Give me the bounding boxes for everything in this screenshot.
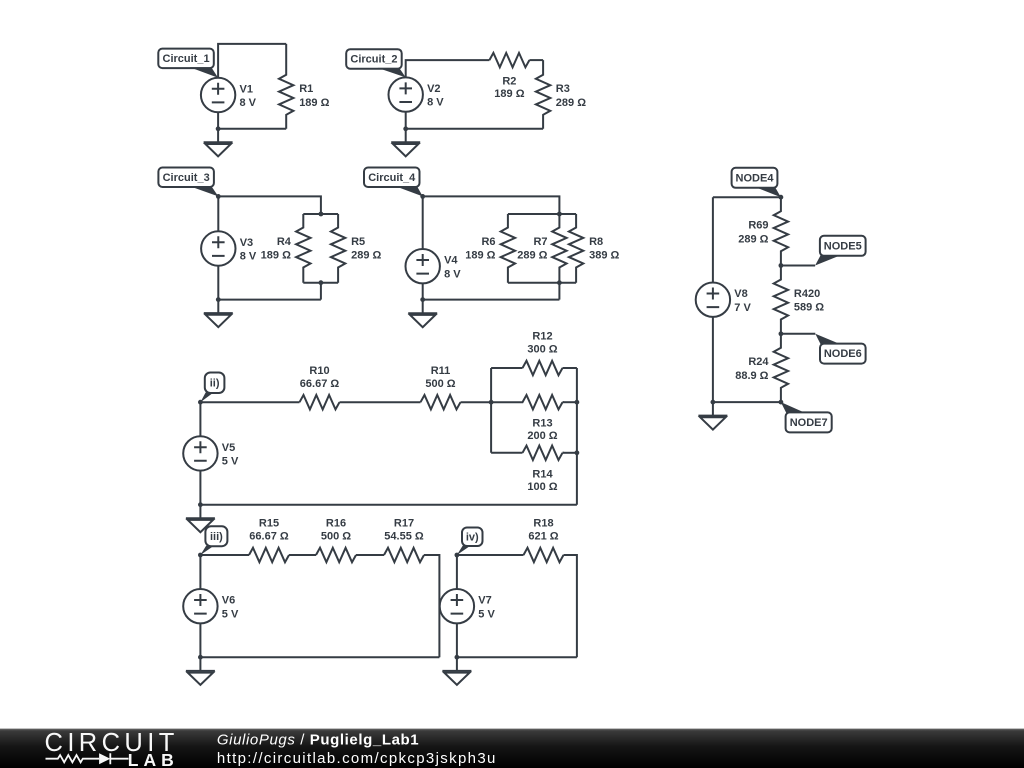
junction dot block right bottom xyxy=(575,450,580,455)
svg-text:88.9 Ω: 88.9 Ω xyxy=(735,370,768,382)
wire split top circuit 3 xyxy=(303,213,338,215)
svg-text:289 Ω: 289 Ω xyxy=(556,97,586,109)
resistor R15 xyxy=(249,518,289,563)
wire V2 to ground xyxy=(405,112,407,143)
wire V4 to ground xyxy=(422,283,424,313)
wire V6 to ground xyxy=(199,623,201,671)
svg-text:V3: V3 xyxy=(240,237,253,249)
wire V7 to ground xyxy=(456,623,458,671)
svg-text:300 Ω: 300 Ω xyxy=(527,344,557,356)
svg-text:R24: R24 xyxy=(748,356,769,368)
svg-text:V6: V6 xyxy=(222,595,235,607)
resistor R16 xyxy=(316,518,356,563)
label flag ii) xyxy=(200,373,224,403)
CircuitLab logo glyph resistor-diode xyxy=(46,753,129,764)
junction dot circuit 3 bottom xyxy=(216,297,221,302)
svg-text:R6: R6 xyxy=(481,236,495,248)
wire top-left circuit 2 xyxy=(406,60,490,77)
ground circuit 1 xyxy=(204,142,233,156)
junction dot circuit 2 xyxy=(403,126,408,131)
svg-text:R13: R13 xyxy=(532,418,552,430)
svg-text:66.67 Ω: 66.67 Ω xyxy=(300,378,340,390)
svg-text:R7: R7 xyxy=(533,236,547,248)
ground circuit 2 xyxy=(391,142,420,156)
svg-text:5 V: 5 V xyxy=(222,608,239,620)
wire V5 to ground xyxy=(199,471,201,519)
wire top rail node ladder xyxy=(713,196,781,198)
svg-text:189 Ω: 189 Ω xyxy=(465,250,495,262)
wire bottom rail ii xyxy=(200,504,577,506)
junction dot iv bottom xyxy=(455,655,460,660)
svg-text:R16: R16 xyxy=(326,518,346,530)
svg-text:NODE7: NODE7 xyxy=(790,417,828,429)
wire split bottom circuit 3 xyxy=(303,282,338,284)
svg-text:ii): ii) xyxy=(210,377,220,389)
wire split bottom circuit 4 xyxy=(508,282,576,284)
voltage source V7 xyxy=(440,589,496,623)
footer url xyxy=(217,750,497,767)
label flag NODE7 xyxy=(781,402,832,432)
svg-text:R4: R4 xyxy=(277,236,292,248)
svg-text:R11: R11 xyxy=(431,365,451,377)
svg-text:R17: R17 xyxy=(394,518,414,530)
wire bottom rail circuit 2 xyxy=(406,128,543,130)
svg-text:R5: R5 xyxy=(351,236,365,248)
junction dot NODE6 xyxy=(779,331,784,336)
svg-text:V1: V1 xyxy=(240,83,253,95)
svg-text:V7: V7 xyxy=(478,595,491,607)
wire V3 top xyxy=(217,196,219,231)
svg-text:R2: R2 xyxy=(502,76,516,88)
svg-text:R15: R15 xyxy=(259,518,279,530)
ground circuit ii xyxy=(186,518,215,532)
svg-text:R8: R8 xyxy=(589,236,603,248)
resistor R13 xyxy=(491,395,562,442)
wire V6 top xyxy=(199,555,201,589)
footer bar xyxy=(0,729,1024,768)
wire top rail circuit 1 xyxy=(218,44,286,78)
label flag NODE5 xyxy=(815,236,866,266)
resistor R7 xyxy=(517,214,566,283)
junction dot circuit 4 bottom xyxy=(420,297,425,302)
ground circuit iii xyxy=(186,671,215,685)
svg-text:621 Ω: 621 Ω xyxy=(528,531,558,543)
resistor R11 xyxy=(421,365,461,410)
resistor R18 xyxy=(524,518,564,563)
junction dot circuit 4 top xyxy=(420,194,425,199)
wire rail iii a xyxy=(200,554,249,556)
voltage source V5 xyxy=(183,436,239,470)
svg-text:NODE4: NODE4 xyxy=(736,172,775,184)
CircuitLab logo text LAB xyxy=(128,750,179,768)
svg-text:500 Ω: 500 Ω xyxy=(321,531,351,543)
resistor R3 xyxy=(536,60,586,129)
wire V4 top xyxy=(422,196,424,249)
label flag Circuit_4 xyxy=(364,168,423,197)
junction dot circuit 4 split top xyxy=(557,212,562,217)
wire bottom rail iii xyxy=(200,656,439,658)
voltage source V4 xyxy=(406,249,462,283)
svg-text:R12: R12 xyxy=(532,331,552,343)
label flag iii) xyxy=(200,526,227,555)
wire top rail circuit 3 xyxy=(218,196,321,214)
resistor R5 xyxy=(331,214,382,283)
footer title GiulioPugs / Puglielg_Lab1 xyxy=(217,731,419,748)
svg-text:NODE6: NODE6 xyxy=(824,348,862,360)
wire NODE6 stub xyxy=(781,333,815,335)
svg-text:R420: R420 xyxy=(794,288,820,300)
wire merge to rail circuit 4 xyxy=(558,283,560,300)
svg-text:V2: V2 xyxy=(427,83,440,95)
label flag Circuit_1 xyxy=(158,49,218,78)
svg-text:LAB: LAB xyxy=(128,750,179,768)
svg-text:Circuit_4: Circuit_4 xyxy=(368,172,416,184)
voltage source V1 xyxy=(201,78,257,112)
wire V7 top xyxy=(456,555,458,589)
svg-text:289 Ω: 289 Ω xyxy=(738,233,768,245)
ground node ladder xyxy=(698,416,727,430)
ground circuit iv xyxy=(442,671,471,685)
wire V1 to ground xyxy=(217,112,219,142)
svg-text:iv): iv) xyxy=(466,531,479,543)
resistor R8 xyxy=(569,214,620,283)
wire rail iv b and right side xyxy=(564,555,577,657)
svg-text:8 V: 8 V xyxy=(240,251,257,263)
svg-text:200 Ω: 200 Ω xyxy=(527,430,557,442)
wire top rail circuit 4 xyxy=(423,196,560,214)
wire bottom rail circuit 4 xyxy=(423,299,560,301)
svg-text:289 Ω: 289 Ω xyxy=(517,250,547,262)
voltage source V3 xyxy=(201,231,257,265)
resistor R6 xyxy=(465,214,515,283)
voltage source V8 xyxy=(696,283,752,317)
ground circuit 3 xyxy=(204,313,233,327)
label flag Circuit_3 xyxy=(158,168,218,197)
svg-text:R10: R10 xyxy=(309,365,329,377)
junction dot circuit 4 split bottom xyxy=(557,280,562,285)
junction dot node ladder bottom-left xyxy=(711,400,716,405)
resistor R4 xyxy=(261,214,311,283)
wire block top-left xyxy=(491,367,522,369)
junction dot ii bottom-left xyxy=(198,502,203,507)
junction dot iii bottom xyxy=(198,655,203,660)
voltage source V2 xyxy=(389,77,445,111)
ground circuit 4 xyxy=(408,313,437,327)
junction dot iv top xyxy=(455,553,460,558)
svg-text:http://circuitlab.com/cpkcp3js: http://circuitlab.com/cpkcp3jskph3u xyxy=(217,750,497,767)
wire rail ii mid2 xyxy=(461,401,492,403)
svg-text:589 Ω: 589 Ω xyxy=(794,302,824,314)
svg-text:8 V: 8 V xyxy=(427,97,444,109)
junction dot circuit 3 top xyxy=(216,194,221,199)
wire rail iv a xyxy=(457,554,524,556)
resistor R17 xyxy=(384,518,424,563)
svg-text:54.55 Ω: 54.55 Ω xyxy=(384,531,424,543)
wire bottom rail iv xyxy=(457,656,577,658)
wire bottom rail node ladder xyxy=(713,401,781,403)
wire block left vertical xyxy=(490,368,492,453)
svg-text:NODE5: NODE5 xyxy=(824,240,862,252)
voltage source V6 xyxy=(183,589,239,623)
wire R13 right xyxy=(563,401,577,403)
svg-text:V5: V5 xyxy=(222,442,235,454)
svg-text:66.67 Ω: 66.67 Ω xyxy=(249,531,289,543)
label flag Circuit_2 xyxy=(346,49,406,77)
wire block right vertical xyxy=(576,368,578,505)
junction dot block right mid xyxy=(575,400,580,405)
wire merge to rail circuit 3 xyxy=(320,283,322,300)
svg-text:189 Ω: 189 Ω xyxy=(261,250,291,262)
junction dot iii top xyxy=(198,553,203,558)
resistor R12 xyxy=(523,331,563,375)
svg-text:V4: V4 xyxy=(444,255,458,267)
svg-text:8 V: 8 V xyxy=(444,268,461,280)
svg-text:V8: V8 xyxy=(734,288,747,300)
wire V3 to ground xyxy=(217,266,219,313)
wire rail iii c xyxy=(356,554,384,556)
svg-text:8 V: 8 V xyxy=(240,97,257,109)
label flag NODE6 xyxy=(815,334,865,364)
wire split top circuit 4 xyxy=(508,213,576,215)
resistor R10 xyxy=(300,365,340,410)
svg-text:Circuit_2: Circuit_2 xyxy=(350,53,397,65)
resistor R2 xyxy=(489,53,529,100)
svg-text:Circuit_3: Circuit_3 xyxy=(163,172,210,184)
svg-text:289 Ω: 289 Ω xyxy=(351,250,381,262)
wire rail iii d and right side xyxy=(424,555,439,657)
junction dot block left xyxy=(489,400,494,405)
junction dot NODE5 xyxy=(779,263,784,268)
junction dot circuit 3 split top xyxy=(319,212,324,217)
junction dot ii left xyxy=(198,400,203,405)
resistor R14 xyxy=(523,446,563,493)
junction dot NODE4 xyxy=(779,195,784,200)
wire bottom rail circuit 1 xyxy=(218,128,286,130)
svg-text:iii): iii) xyxy=(210,531,223,543)
svg-text:500 Ω: 500 Ω xyxy=(425,378,455,390)
resistor R24 xyxy=(735,334,788,402)
wire rail iii b xyxy=(289,554,316,556)
svg-text:R18: R18 xyxy=(533,518,553,530)
svg-text:5 V: 5 V xyxy=(478,608,495,620)
wire R2 to R3 xyxy=(529,59,543,61)
svg-text:5 V: 5 V xyxy=(222,456,239,468)
wire block top-right xyxy=(563,367,577,369)
svg-text:7 V: 7 V xyxy=(734,302,751,314)
wire block bottom-right xyxy=(563,452,577,454)
svg-text:389 Ω: 389 Ω xyxy=(589,250,619,262)
svg-text:Circuit_1: Circuit_1 xyxy=(163,53,210,65)
svg-text:GiulioPugs / Puglielg_Lab1: GiulioPugs / Puglielg_Lab1 xyxy=(217,731,419,748)
label flag iv) xyxy=(457,528,483,556)
wire V8 top xyxy=(712,197,714,282)
svg-text:189 Ω: 189 Ω xyxy=(494,88,524,100)
resistor R420 xyxy=(774,266,825,334)
svg-text:R3: R3 xyxy=(556,83,570,95)
svg-text:R1: R1 xyxy=(299,83,313,95)
junction dot circuit 1 xyxy=(216,126,221,131)
svg-text:189 Ω: 189 Ω xyxy=(299,97,329,109)
wire NODE5 stub xyxy=(781,265,815,267)
junction dot NODE7 xyxy=(779,400,784,405)
svg-text:100 Ω: 100 Ω xyxy=(527,481,557,493)
junction dot circuit 3 split bottom xyxy=(319,280,324,285)
resistor R69 xyxy=(738,197,788,265)
svg-text:R14: R14 xyxy=(532,468,553,480)
wire bottom rail circuit 3 xyxy=(218,299,321,301)
label flag NODE4 xyxy=(732,168,781,197)
CircuitLab logo text CIRCUIT xyxy=(45,729,179,757)
wire V8 to ground xyxy=(712,317,714,416)
svg-text:R69: R69 xyxy=(748,220,768,232)
wire V5 top xyxy=(199,402,201,436)
wire rail ii mid1 xyxy=(340,401,421,403)
resistor R1 xyxy=(279,44,330,129)
wire rail ii left xyxy=(200,401,299,403)
wire block bottom-left xyxy=(491,452,522,454)
